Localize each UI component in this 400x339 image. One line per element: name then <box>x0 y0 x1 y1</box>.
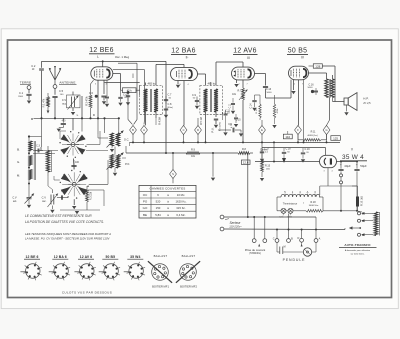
wire galette links <box>72 118 76 209</box>
resistor R4 label <box>156 117 162 125</box>
arrow prise <box>258 244 260 247</box>
svg-text:520: 520 <box>156 200 161 204</box>
node diamond G <box>323 125 330 142</box>
note tensions <box>25 232 111 240</box>
node diamond D2 <box>195 118 202 142</box>
transformer MF1 <box>140 82 163 115</box>
socket label 12 AV 6 <box>78 255 94 259</box>
socket 12 BA 6 <box>49 262 70 281</box>
svg-text:O.C.: O.C. <box>124 138 130 142</box>
node G. <box>17 160 20 164</box>
svg-text:A: A <box>143 128 145 132</box>
svg-text:BE: BE <box>143 213 147 217</box>
wire B+ line <box>262 148 326 156</box>
svg-text:A: A <box>307 190 309 194</box>
svg-text:110: 110 <box>285 135 290 139</box>
wire antenna coil column <box>28 135 42 197</box>
svg-text:D: D <box>297 237 299 240</box>
wire AVC bus <box>34 117 120 119</box>
capacitor C5 <box>52 89 64 118</box>
svg-text:CULOTS VUS PAR DESSOU: CULOTS VUS PAR DESSOUS <box>62 290 112 294</box>
wire speaker <box>333 98 349 116</box>
svg-text:PO: PO <box>143 200 148 204</box>
coil OC <box>107 131 130 148</box>
svg-text:S: S <box>172 172 174 176</box>
wire tube V3 leads <box>234 80 243 88</box>
svg-text:125: 125 <box>333 136 338 140</box>
svg-text:R.5 1M: R.5 1M <box>201 117 203 124</box>
label pendule <box>283 258 306 262</box>
ground mid <box>211 153 215 181</box>
variable capacitor CV ant <box>12 194 34 209</box>
wire AVC riser <box>247 153 249 218</box>
svg-text:465 kc: 465 kc <box>148 82 157 86</box>
svg-text:BOITIER MF1: BOITIER MF1 <box>152 285 169 289</box>
svg-text:40μF: 40μF <box>344 164 351 168</box>
arrow tap <box>349 226 361 229</box>
svg-text:R.3 22k: R.3 22k <box>90 191 93 200</box>
voltage box 110 <box>283 131 292 139</box>
wire coil links <box>48 176 52 190</box>
terminal terre <box>27 86 31 94</box>
svg-text:ANTENNE: ANTENNE <box>59 81 75 85</box>
resistor R17 <box>352 186 363 211</box>
node B. <box>17 147 20 151</box>
node M <box>31 117 34 121</box>
lamp 1 <box>281 208 286 213</box>
svg-text:315 Kc.: 315 Kc. <box>176 206 186 210</box>
voltage box 125 <box>331 136 341 141</box>
wire pendule drops <box>276 214 317 239</box>
capacitor C8 <box>164 103 173 118</box>
svg-text:3: 3 <box>95 84 96 86</box>
wire tube V4 leads <box>291 80 298 126</box>
svg-text:R.16 1kΩ: R.16 1kΩ <box>361 196 363 206</box>
svg-text:C.18: C.18 <box>285 148 291 151</box>
svg-text:C.14: C.14 <box>250 103 253 109</box>
svg-text:Thermistance: Thermistance <box>283 202 298 205</box>
terminal secteur 1 <box>220 215 316 219</box>
schematic border frame <box>8 40 392 298</box>
svg-text:C.7: C.7 <box>168 94 173 97</box>
capacitor C3 <box>35 144 43 152</box>
wire secteur right <box>345 228 349 230</box>
voltage box 128 <box>309 64 336 102</box>
svg-text:LA MASSE. PU. CV OUVERT - SECT: LA MASSE. PU. CV OUVERT - SECTEUR 110V S… <box>25 236 111 240</box>
node D <box>93 113 96 117</box>
capacitor C4 <box>71 160 79 170</box>
svg-text:acc.: acc. <box>62 102 67 105</box>
resistor R9 <box>186 149 200 158</box>
transformer output <box>309 73 335 125</box>
svg-text:R.8: R.8 <box>242 148 247 151</box>
variable capacitor CV2 osc <box>42 190 58 214</box>
svg-text:6,4 Mc.: 6,4 Mc. <box>176 213 185 217</box>
svg-text:1620 Kc.: 1620 Kc. <box>175 200 186 204</box>
wire top oscillator bus <box>42 60 167 153</box>
resistor R15 <box>260 142 271 181</box>
socket label 12 BE 6 <box>24 255 40 259</box>
wire galette2 contacts <box>54 160 108 206</box>
svg-text:(7450430L): (7450430L) <box>249 253 261 255</box>
label boitier MF2 <box>180 285 197 289</box>
capacitor C13 <box>255 74 273 99</box>
svg-text:C.8: C.8 <box>168 103 173 106</box>
socket ballast 1 <box>148 261 172 283</box>
resistor R1 <box>43 93 50 114</box>
svg-text:C: C <box>183 128 185 132</box>
svg-text:M: M <box>284 246 286 248</box>
capacitor C6b <box>118 90 127 106</box>
note commutateur <box>25 214 104 224</box>
wire 35W4 output <box>337 161 358 163</box>
svg-text:C.1: C.1 <box>19 91 24 95</box>
svg-text:50 B5: 50 B5 <box>288 48 308 55</box>
svg-text:4: 4 <box>187 84 188 86</box>
terminal A <box>314 238 320 243</box>
capacitor C9 <box>192 94 199 109</box>
svg-text:12 AV 6: 12 AV 6 <box>80 255 93 259</box>
svg-text:C.19: C.19 <box>304 148 310 151</box>
svg-text:R.15: R.15 <box>265 164 271 167</box>
svg-text:GO: GO <box>143 206 148 210</box>
coil antenna B <box>29 141 36 180</box>
svg-text:12 BA 6: 12 BA 6 <box>54 255 67 259</box>
label tube 12BA6 <box>171 48 197 60</box>
svg-text:LE COMMUTATEUR EST REPRESENTE: LE COMMUTATEUR EST REPRESENTE SUR <box>25 214 92 218</box>
capacitor C10 <box>214 111 230 128</box>
svg-text:C.6: C.6 <box>89 92 94 95</box>
capacitor C11 <box>230 98 236 114</box>
svg-text:B.: B. <box>17 147 20 151</box>
node diamond F <box>295 125 302 142</box>
capacitor bottom left <box>57 195 100 214</box>
wire osc coil feeds <box>98 118 119 154</box>
svg-text:2: 2 <box>238 84 239 86</box>
svg-text:A demander pour utilisation: A demander pour utilisation <box>345 249 371 252</box>
svg-text:BALLAST: BALLAST <box>154 254 168 258</box>
svg-text:TERRE: TERRE <box>20 81 32 85</box>
filter capacitor 50uF <box>354 161 367 212</box>
svg-text:H.P.: H.P. <box>363 96 369 100</box>
svg-text:II-: II- <box>186 55 189 59</box>
svg-text:Prise de courant: Prise de courant <box>245 248 266 252</box>
svg-text:12 AV6: 12 AV6 <box>233 48 257 55</box>
socket 35 W4 <box>124 262 145 281</box>
tube V2 12BA6 <box>171 67 198 80</box>
capacitor C7 <box>164 94 172 104</box>
capacitor C16 <box>308 83 318 95</box>
svg-text:5,84: 5,84 <box>155 213 161 217</box>
wire anode 35W4 <box>255 142 320 162</box>
svg-text:300Ω 10w: 300Ω 10w <box>309 205 319 207</box>
volume potentiometer R7 <box>232 88 247 142</box>
label TERRE <box>20 81 32 85</box>
wire tube V1 cathode leads <box>98 80 104 118</box>
terminal column <box>358 212 374 237</box>
wire HT bus <box>130 141 341 143</box>
resistor R12 label <box>231 123 233 128</box>
svg-text:12 BA6: 12 BA6 <box>171 48 195 55</box>
svg-text:2000: 2000 <box>18 96 24 98</box>
svg-text:R.13: R.13 <box>256 108 258 113</box>
svg-text:12 BE6: 12 BE6 <box>89 47 113 54</box>
label HP <box>363 96 371 105</box>
svg-text:12 BE 6: 12 BE 6 <box>26 255 39 259</box>
wire MF2 leads <box>198 62 244 142</box>
table gammes couvertes <box>139 185 196 218</box>
wire V1 plate <box>105 74 140 91</box>
svg-text:3: 3 <box>323 171 324 173</box>
svg-text:R.4 2M: R.4 2M <box>160 117 162 124</box>
lamp 2 <box>288 208 293 213</box>
wire tube V2 leads <box>176 81 184 126</box>
svg-text:465Ω (1w): 465Ω (1w) <box>307 135 317 137</box>
svg-text:35 W 4: 35 W 4 <box>342 154 364 161</box>
svg-text:P.U.: P.U. <box>211 127 215 132</box>
label thermistance <box>283 201 305 205</box>
svg-text:R.1 47k: R.1 47k <box>43 98 46 107</box>
node diamond A <box>141 125 148 142</box>
svg-text:C.17: C.17 <box>264 148 270 151</box>
label ballast 2 <box>182 254 196 258</box>
svg-text:150: 150 <box>156 206 161 210</box>
wire PO bottom <box>113 146 126 176</box>
wire coil taps <box>33 118 58 154</box>
wire V3 net <box>255 95 275 104</box>
coil antenna M <box>29 170 32 180</box>
socket ballast 2 <box>176 261 200 283</box>
wire tube V1 extra lead <box>105 83 109 108</box>
svg-text:Osc. 1 Meg: Osc. 1 Meg <box>115 55 130 59</box>
svg-text:C.V: C.V <box>12 196 17 200</box>
svg-text:D: D <box>197 128 199 132</box>
svg-text:P.O.: P.O. <box>125 162 130 166</box>
node diamond C <box>180 125 187 142</box>
wire AVC lower bus <box>126 152 238 154</box>
terminal secteur 2 <box>220 227 345 231</box>
wire to MF1 <box>98 74 133 135</box>
resistor R8 <box>238 148 268 155</box>
capacitor C15 <box>234 114 241 127</box>
svg-text:C: C <box>273 237 275 240</box>
socket label 12 BA 6 <box>52 255 68 259</box>
svg-text:R.18: R.18 <box>310 201 316 204</box>
label lamps <box>279 214 292 219</box>
wire screen feed <box>113 63 145 124</box>
coil auto-transfo secondary <box>374 212 379 236</box>
svg-text:C.5: C.5 <box>59 89 64 93</box>
label tube 12AV6 <box>233 48 258 60</box>
label tube 35W4 <box>340 148 367 161</box>
capacitor C12 <box>223 110 230 136</box>
svg-text:LA POSITION DE GALETTES VUE CO: LA POSITION DE GALETTES VUE COTE CONTACT… <box>25 220 104 224</box>
transformer auto primary <box>281 190 320 197</box>
label culots <box>62 290 112 294</box>
svg-text:C.12: C.12 <box>225 110 231 112</box>
resistor R18 <box>306 201 323 212</box>
label boitier MF1 <box>152 285 169 289</box>
ground terre <box>27 101 31 104</box>
svg-text:ant.: ant. <box>13 200 17 203</box>
voltage box 12.6 <box>241 160 250 165</box>
tube V4 50B5 <box>289 66 309 80</box>
wire MF1 leads <box>146 64 185 125</box>
resistor R11 <box>298 131 327 141</box>
svg-text:G.: G. <box>17 160 20 164</box>
capacitor C14 <box>250 95 257 111</box>
svg-text:PENDULE: PENDULE <box>283 258 306 262</box>
wire heater chain <box>277 197 362 212</box>
svg-text:BALLAST: BALLAST <box>182 254 196 258</box>
svg-text:C.13: C.13 <box>266 88 272 91</box>
svg-text:R.6 470k: R.6 470k <box>219 121 221 131</box>
node diamond E <box>259 120 266 142</box>
node diamond S <box>170 153 177 183</box>
svg-text:R.9: R.9 <box>191 149 196 152</box>
node diamond B <box>130 125 137 142</box>
svg-text:7: 7 <box>302 83 303 85</box>
svg-text:R.11: R.11 <box>311 131 317 134</box>
resistor R2 <box>86 80 93 118</box>
label auto-transfo <box>339 243 377 255</box>
svg-text:R.2 470k: R.2 470k <box>86 96 88 106</box>
svg-text:III: III <box>247 56 250 60</box>
capacitor C6 <box>89 92 107 104</box>
input PU <box>211 124 244 137</box>
svg-text:E: E <box>261 128 263 132</box>
svg-text:GAMMES COUVERTES: GAMMES COUVERTES <box>150 187 186 191</box>
svg-text:128: 128 <box>315 64 320 68</box>
svg-text:I-: I- <box>97 55 99 59</box>
svg-text:7: 7 <box>246 84 247 86</box>
wire tube V3 extra <box>303 80 305 144</box>
terminal C <box>273 237 279 242</box>
svg-text:sur 220v 50c/s.: sur 220v 50c/s. <box>350 252 365 255</box>
coil antenna G <box>29 156 32 166</box>
svg-text:2: 2 <box>294 83 295 85</box>
capacitor 470pF <box>57 118 67 132</box>
svg-text:(50m): (50m) <box>167 107 173 109</box>
label tube 12BE6 <box>89 47 115 59</box>
svg-text:B: B <box>132 128 134 132</box>
svg-text:C.9: C.9 <box>192 94 197 97</box>
capacitor C2 <box>31 64 44 118</box>
svg-text:C.3: C.3 <box>36 144 40 147</box>
svg-text:C.16: C.16 <box>308 83 314 86</box>
socket 12 AV 6 <box>74 262 95 281</box>
svg-text:5000: 5000 <box>267 92 273 94</box>
svg-text:50μF: 50μF <box>360 164 367 168</box>
label ballast 1 <box>154 254 168 258</box>
wire osc bus left <box>129 142 131 146</box>
wire coupling to 50B5 <box>266 80 292 98</box>
svg-text:AUTO-TRANSFO: AUTO-TRANSFO <box>344 243 371 247</box>
label prise de courant <box>245 248 266 255</box>
capacitor C1 <box>18 91 32 100</box>
resistor R6 label <box>219 112 222 131</box>
filter capacitor 40uF <box>338 161 351 212</box>
label ANTENNE <box>59 81 77 85</box>
antenna <box>49 66 62 95</box>
resistor R3 <box>86 186 93 206</box>
resistor 45k box <box>121 85 140 95</box>
terminal D3 <box>297 237 303 242</box>
svg-text:12,6: 12,6 <box>243 161 249 165</box>
capacitor C19 <box>301 148 310 163</box>
wire mf2 top link <box>211 82 217 86</box>
galette switch 2 <box>60 170 89 199</box>
capacitor screen bypass <box>126 91 130 105</box>
svg-text:M.: M. <box>17 173 20 177</box>
socket label 50 B5 <box>102 255 118 259</box>
svg-text:osc.: osc. <box>42 200 47 203</box>
coil oscillator <box>41 146 52 176</box>
tube pin digits <box>95 83 333 172</box>
wire prise drops <box>253 216 266 239</box>
capacitor C18 <box>282 148 291 163</box>
svg-text:50 B5: 50 B5 <box>106 255 116 259</box>
svg-text:5000: 5000 <box>308 87 314 89</box>
node M2 <box>17 173 20 177</box>
motor pendule <box>283 242 316 256</box>
speaker HP <box>344 93 357 111</box>
ground OC <box>110 147 114 153</box>
socket label 35 W4 <box>127 255 143 259</box>
svg-text:10 Mc.: 10 Mc. <box>177 193 186 197</box>
terminal B <box>287 237 294 242</box>
tube V1 12BE6 <box>91 67 113 80</box>
galette switch 1 <box>59 131 86 158</box>
socket 50 B5 <box>99 262 120 281</box>
label OSC coupling <box>115 55 130 59</box>
socket 12 BE 6 <box>20 262 41 281</box>
resistor R13 <box>256 104 261 120</box>
svg-text:BOITIER MF2: BOITIER MF2 <box>180 285 197 289</box>
tube V5 35W4 <box>320 155 337 167</box>
jack pendule <box>277 242 286 254</box>
resistor R14 <box>272 104 279 128</box>
svg-text:4: 4 <box>331 171 332 173</box>
capacitor C17 <box>260 148 270 163</box>
svg-text:Secteur: Secteur <box>230 221 242 225</box>
label secteur <box>225 219 242 229</box>
resistor R5 label <box>201 117 203 124</box>
svg-text:35 W4: 35 W4 <box>130 255 140 259</box>
label tube 50B5 <box>287 48 308 60</box>
terminal prise 2 <box>263 239 267 243</box>
svg-text:4: 4 <box>105 84 106 86</box>
svg-text:Z= 2,5: Z= 2,5 <box>363 102 371 105</box>
terminal prise 1 <box>252 239 256 243</box>
svg-text:110-220v~: 110-220v~ <box>229 225 242 229</box>
transformer MF2 <box>200 82 223 115</box>
tube V3 12AV6 <box>232 67 255 80</box>
svg-text:C.2: C.2 <box>31 64 36 68</box>
wire heater 35W4 <box>320 168 358 195</box>
variable capacitor CV1 <box>62 92 82 119</box>
svg-text:G: G <box>325 128 327 132</box>
node L <box>77 113 79 117</box>
svg-text:465 kc: 465 kc <box>208 82 217 86</box>
coil PO <box>107 153 131 170</box>
wire galette1 contacts <box>60 118 108 150</box>
